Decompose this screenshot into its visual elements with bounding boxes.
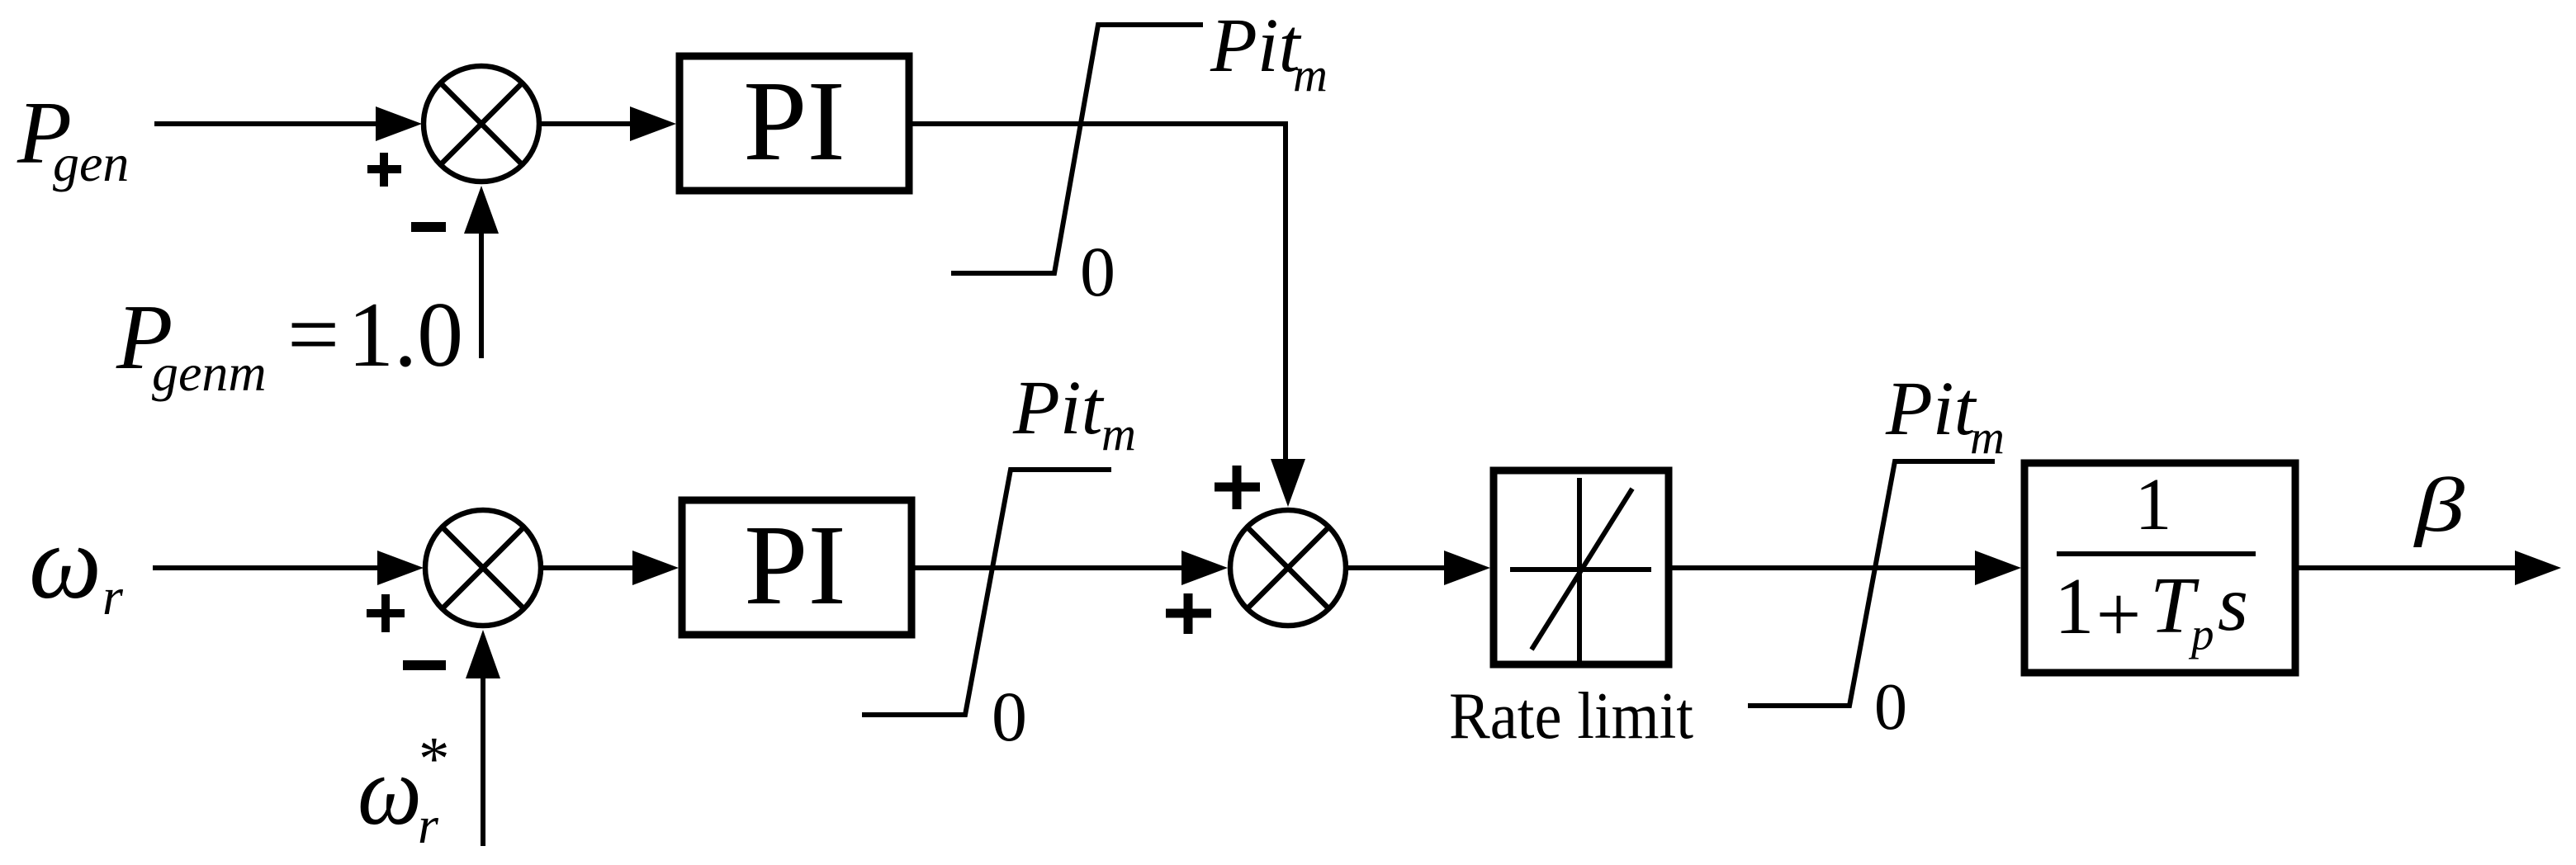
wire P_gen input: [154, 121, 378, 126]
block rate limiter: [1494, 470, 1669, 664]
arrowhead into S2 top: [1271, 459, 1305, 507]
wire S2 to rate limiter: [1346, 565, 1446, 570]
arrowhead into S2 left: [1181, 551, 1228, 585]
svg-text:1: 1: [2054, 562, 2095, 650]
wire rate limiter to TF block: [1672, 565, 1975, 570]
svg-text:r: r: [418, 796, 439, 854]
wire S3 to PI2: [541, 565, 634, 570]
plus sign at S2 left input: [1166, 593, 1211, 634]
wire TF output: [2299, 565, 2517, 570]
input label P_gen: [17, 84, 129, 192]
svg-text:m: m: [1970, 410, 2005, 464]
arrowhead into summer S1: [376, 106, 422, 141]
wire PI1 output to corner and down to S2: [912, 124, 1286, 461]
wire PI2 to S2: [915, 565, 1183, 570]
wire S1 to PI1: [539, 121, 632, 126]
label Pit_m for L2: [1012, 366, 1136, 461]
svg-text:0: 0: [1874, 671, 1907, 744]
arrowhead into S3: [377, 551, 424, 585]
svg-text:+: +: [2096, 570, 2142, 659]
svg-text:Pit: Pit: [1012, 366, 1105, 451]
svg-text:0: 0: [992, 677, 1027, 756]
TF fraction bar: [2057, 551, 2256, 556]
svg-text:m: m: [1293, 48, 1328, 102]
arrowhead into rate limiter: [1444, 551, 1490, 585]
plus sign at S2 top input: [1215, 466, 1260, 509]
plus sign at S3 input: [367, 594, 405, 632]
svg-text:β: β: [2413, 463, 2465, 548]
reference label omega_r*: [358, 725, 450, 854]
svg-text:r: r: [102, 567, 124, 626]
svg-text:*: *: [419, 725, 450, 793]
summing junction S3: [425, 510, 541, 626]
summing junction S2: [1230, 510, 1346, 626]
svg-text:Pit: Pit: [1210, 3, 1302, 88]
svg-text:1: 1: [2135, 464, 2172, 546]
rate limiter icon: [1510, 478, 1651, 661]
input label omega_r: [29, 503, 124, 626]
plus sign at S1 input: [367, 153, 401, 187]
block transfer function 1/(1+Tp s): [2024, 463, 2295, 673]
wire omega_r input: [153, 565, 380, 570]
limiter symbol L1: [951, 25, 1203, 273]
svg-text:PI: PI: [743, 58, 845, 185]
arrowhead into PI1: [630, 106, 676, 141]
svg-text:ω: ω: [358, 735, 422, 845]
label Pit_m for L1: [1210, 3, 1328, 102]
svg-text:genm: genm: [152, 343, 267, 402]
svg-text:p: p: [2188, 609, 2214, 659]
arrowhead into S3 bottom: [466, 630, 500, 678]
TF denominator 1+Tp s: [2054, 560, 2248, 659]
svg-text:PI: PI: [744, 502, 846, 629]
svg-text:=1.0: =1.0: [287, 284, 463, 386]
minus sign at S3 bottom input: [403, 660, 446, 670]
arrowhead into PI2: [632, 551, 679, 585]
svg-text:Rate limit: Rate limit: [1449, 678, 1693, 753]
svg-text:ω: ω: [29, 503, 102, 621]
svg-text:0: 0: [1080, 232, 1115, 311]
block PI1: [680, 56, 909, 191]
arrowhead output: [2515, 551, 2561, 585]
summing junction S1: [424, 66, 539, 182]
wire P_genm reference (vertical): [479, 230, 484, 358]
svg-text:gen: gen: [53, 134, 129, 192]
wire omega_r* reference (vertical): [481, 675, 485, 846]
reference label P_genm = 1.0: [116, 284, 463, 402]
limiter symbol L3: [1748, 461, 1995, 706]
svg-text:Pit: Pit: [1885, 366, 1977, 451]
block PI2: [682, 500, 912, 635]
svg-text:m: m: [1101, 407, 1136, 461]
arrowhead into S1 bottom: [464, 186, 499, 234]
arrowhead into TF block: [1975, 551, 2021, 585]
minus sign at S1 bottom input: [411, 222, 446, 232]
limiter symbol L2: [862, 470, 1111, 715]
svg-text:s: s: [2218, 560, 2248, 647]
label Pit_m for L3: [1885, 366, 2005, 464]
